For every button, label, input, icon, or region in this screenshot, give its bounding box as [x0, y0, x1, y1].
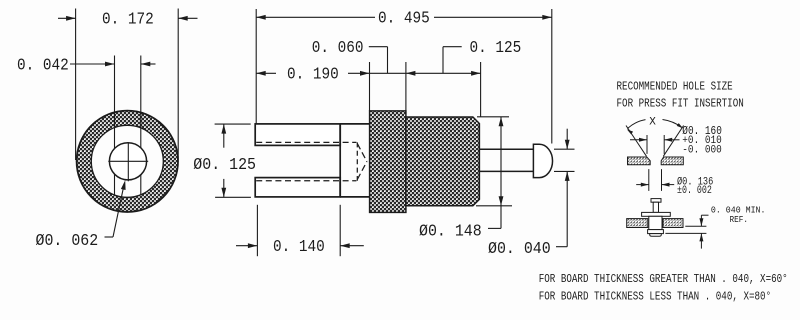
svg-text:FOR PRESS FIT INSERTION: FOR PRESS FIT INSERTION	[617, 97, 744, 110]
svg-text:0. 190: 0. 190	[287, 65, 339, 84]
svg-text:Ø0. 148: Ø0. 148	[419, 222, 482, 241]
svg-text:0. 125: 0. 125	[470, 38, 522, 57]
svg-text:0. 140: 0. 140	[273, 237, 325, 256]
svg-text:RECOMMENDED HOLE SIZE: RECOMMENDED HOLE SIZE	[617, 80, 733, 93]
svg-text:0. 042: 0. 042	[17, 56, 69, 75]
svg-text:Ø0. 062: Ø0. 062	[36, 232, 99, 251]
svg-text:0. 060: 0. 060	[312, 38, 364, 57]
svg-text:FOR BOARD THICKNESS LESS THAN: FOR BOARD THICKNESS LESS THAN . 040, X=8…	[539, 290, 771, 303]
svg-text:±0. 002: ±0. 002	[677, 184, 712, 196]
svg-text:FOR BOARD THICKNESS GREATER TH: FOR BOARD THICKNESS GREATER THAN . 040, …	[539, 273, 788, 286]
svg-text:X: X	[649, 117, 656, 129]
svg-text:-0. 000: -0. 000	[682, 145, 721, 157]
svg-text:0. 495: 0. 495	[378, 9, 430, 28]
svg-text:0. 172: 0. 172	[102, 10, 154, 29]
svg-text:REF.: REF.	[730, 215, 748, 226]
svg-text:Ø0. 040: Ø0. 040	[488, 239, 551, 258]
svg-text:Ø0. 125: Ø0. 125	[193, 155, 256, 174]
